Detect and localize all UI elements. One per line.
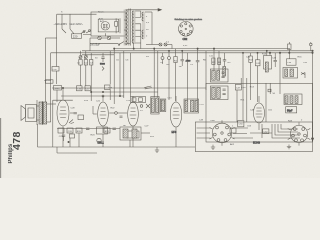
trimmer row <box>79 56 82 59</box>
svg-text:478: 478 <box>11 131 23 150</box>
wire: tap bus vertical <box>140 11 142 17</box>
lower resistor boxes <box>77 86 83 91</box>
winding shade right <box>132 11 136 44</box>
resistor boxes pair top <box>212 58 215 64</box>
IF can upper <box>210 69 228 82</box>
rectifier tube circle <box>101 22 109 30</box>
wire: left bus corner drop <box>50 53 52 100</box>
transformer second secondary <box>142 12 144 39</box>
rectifier enclosure box <box>98 19 119 32</box>
second row with switch <box>90 42 118 44</box>
tube V5 ECH3 envelope <box>254 103 265 123</box>
long verticals <box>187 53 189 100</box>
small comp <box>102 67 104 71</box>
bus line L2 <box>82 50 313 52</box>
transformer core <box>128 9 130 46</box>
wires into socket2 <box>197 128 254 138</box>
wire: second bias line <box>91 91 158 93</box>
IF can lower <box>210 86 228 100</box>
paper grain <box>0 0 320 178</box>
wire: selector to box <box>62 29 66 33</box>
wire from box right <box>141 132 150 134</box>
box with elements <box>264 56 272 70</box>
ground under socket2 <box>211 145 215 150</box>
tube V2 EBL1 envelope <box>98 102 109 126</box>
label box <box>46 80 54 83</box>
wire: right of transformer going right <box>145 11 152 13</box>
wire: lamp row <box>90 37 98 39</box>
winding shade right2 <box>142 12 145 39</box>
tilted cap <box>144 86 152 89</box>
right edge arrow down <box>311 138 313 141</box>
capacitor C30 <box>52 67 59 72</box>
oscillator coil box <box>131 97 146 103</box>
ground symbol mid <box>155 147 159 152</box>
arrowhead heater <box>158 9 162 12</box>
voltage selector box 220 <box>72 34 82 39</box>
wire: bias rail <box>61 95 124 97</box>
verticals in box <box>236 90 238 122</box>
wire: mains second vertical <box>61 14 63 29</box>
nested corners bottom right <box>272 124 300 138</box>
L40 box <box>287 59 297 65</box>
loudspeaker LS <box>26 105 37 122</box>
wire: short rail <box>53 99 73 101</box>
bus line L1 <box>114 48 290 50</box>
vertical right in box <box>119 18 121 33</box>
wire: top line to heater arrow <box>126 9 161 11</box>
cap right <box>223 60 226 61</box>
bus line L3 <box>51 52 313 54</box>
socket diagram S3 base view <box>290 125 307 142</box>
bottom right lamp circles <box>146 44 159 46</box>
wire verticals mid <box>109 51 111 85</box>
cap <box>274 60 277 61</box>
output transformer right <box>283 68 298 79</box>
rectifier outer box <box>91 12 126 36</box>
socket diagram S2 (AK2 base view) <box>212 123 232 143</box>
resistor boxes row <box>79 60 82 66</box>
wire stubs to chassis <box>69 138 71 147</box>
transformer taps <box>135 11 141 43</box>
top right comp <box>310 43 313 46</box>
small box C52 <box>263 129 269 134</box>
wire: mains top horizontal <box>57 13 97 15</box>
bus line L4 <box>82 54 114 56</box>
filter box <box>120 127 141 140</box>
capacitor <box>196 61 200 62</box>
resistor with dot <box>289 52 291 54</box>
switch contact cluster <box>81 31 91 35</box>
small box C47 <box>235 85 241 91</box>
capacitor <box>181 60 184 61</box>
wire: third vertical <box>69 14 71 29</box>
capacitor 5000 <box>102 53 104 57</box>
wire: mains left vertical <box>56 14 58 66</box>
resistor <box>174 57 177 63</box>
chassis bottom line <box>38 146 196 148</box>
scan edge left <box>0 118 2 178</box>
socket circle <box>179 22 194 37</box>
junction dots on bus <box>114 48 115 49</box>
wire into nest <box>250 132 272 134</box>
transformer primary winding <box>126 10 128 45</box>
extra verticals right section <box>265 83 267 122</box>
grid cap wire left <box>93 113 97 115</box>
resistor below <box>54 86 62 91</box>
wire: left area vertical <box>44 38 46 103</box>
wire drops <box>80 51 82 56</box>
resistor in box <box>115 21 118 26</box>
dial lamp circles under box <box>98 36 101 39</box>
wires speaker-transformer <box>37 105 40 107</box>
small comps right <box>140 105 143 108</box>
tube V4 EF9 envelope <box>170 102 181 127</box>
components right of V1 <box>74 113 77 114</box>
hatched resistor vertical <box>223 67 226 77</box>
diode arrow <box>301 73 305 75</box>
winding shade left <box>124 10 128 46</box>
wire: secondary bottom drop <box>133 43 135 49</box>
wire across top <box>52 87 206 89</box>
wire: drops <box>89 38 91 51</box>
tube V3 EBF2 envelope <box>128 102 139 126</box>
ground right <box>287 145 291 149</box>
wires bottom of tubes to chassis <box>62 133 64 147</box>
paper background <box>0 0 320 178</box>
wire: primary to box <box>124 19 126 21</box>
grid coupling between V2 V3 <box>115 112 118 115</box>
output transformer T2 windings <box>39 102 42 124</box>
diode arrow under V1 <box>69 120 74 124</box>
small cluster under V1 <box>62 135 65 136</box>
wire: bottom short line <box>57 152 97 154</box>
transformer secondary winding <box>132 11 134 43</box>
tube V1 EBL1 envelope <box>57 100 69 126</box>
